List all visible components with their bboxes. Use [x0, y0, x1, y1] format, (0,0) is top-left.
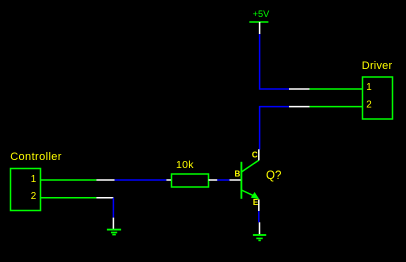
wire Controller pin 2 to ground: [112, 198, 114, 218]
wire resistor to transistor base: [217, 179, 229, 181]
svg-text:C: C: [252, 150, 258, 159]
ground symbol left: [107, 218, 121, 235]
svg-text:10k: 10k: [176, 159, 194, 171]
Controller pin 2: [41, 197, 114, 199]
wire Controller pin 1 to resistor: [115, 179, 167, 181]
svg-text:2: 2: [31, 191, 36, 202]
emitter arrowhead: [251, 192, 260, 199]
base bar: [240, 162, 242, 199]
svg-text:Controller: Controller: [10, 151, 62, 163]
svg-text:+5V: +5V: [253, 9, 270, 19]
svg-text:1: 1: [366, 82, 371, 93]
transistor Q?: [230, 149, 282, 211]
wire +5V to Driver pin 1: [260, 34, 290, 89]
connector Driver: [362, 60, 393, 119]
svg-text:Q?: Q?: [266, 170, 281, 182]
Driver pin 2: [289, 106, 363, 108]
collector pin: [258, 149, 260, 160]
power symbol +5V: [249, 9, 270, 34]
svg-text:E: E: [253, 198, 259, 207]
wire node to Driver pin 2 and transistor collector: [260, 107, 289, 150]
svg-text:Driver: Driver: [362, 60, 393, 72]
svg-text:2: 2: [366, 100, 371, 111]
ground symbol right: [253, 222, 266, 240]
connector Controller: [10, 151, 62, 211]
svg-text:B: B: [235, 169, 241, 178]
resistor 10k: [166, 159, 217, 187]
Driver pin 1: [289, 88, 363, 90]
Controller pin 1: [41, 179, 115, 181]
base pin: [230, 179, 242, 181]
collector diagonal: [241, 160, 258, 172]
emitter diagonal: [241, 190, 253, 196]
emitter pin: [258, 200, 260, 212]
svg-text:1: 1: [31, 174, 36, 185]
wire emitter to ground: [258, 211, 260, 222]
